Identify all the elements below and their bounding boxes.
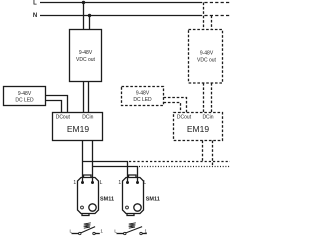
svg-text:DCout: DCout xyxy=(56,115,71,121)
svg-text:SM11: SM11 xyxy=(100,196,114,202)
svg-text:1: 1 xyxy=(118,180,121,186)
svg-text:DC LED: DC LED xyxy=(133,97,152,103)
svg-text:DCout: DCout xyxy=(177,115,192,121)
svg-text:L: L xyxy=(143,180,146,186)
svg-text:9-48V: 9-48V xyxy=(18,91,32,97)
svg-text:DCin: DCin xyxy=(82,115,93,121)
svg-text:EM19: EM19 xyxy=(67,124,89,134)
svg-text:N: N xyxy=(33,13,37,19)
svg-text:9-48V: 9-48V xyxy=(136,91,150,97)
svg-text:VDC out: VDC out xyxy=(76,57,96,63)
svg-text:DC LED: DC LED xyxy=(15,98,34,104)
svg-text:VDC out: VDC out xyxy=(197,58,217,64)
svg-text:1: 1 xyxy=(73,180,76,186)
svg-text:SM11: SM11 xyxy=(146,196,160,202)
svg-text:DCin: DCin xyxy=(202,115,213,121)
svg-text:9-48V: 9-48V xyxy=(200,51,214,57)
svg-text:L: L xyxy=(33,1,37,7)
svg-text:L: L xyxy=(100,180,103,186)
svg-text:EM19: EM19 xyxy=(187,124,209,134)
svg-text:9-48V: 9-48V xyxy=(79,50,93,56)
